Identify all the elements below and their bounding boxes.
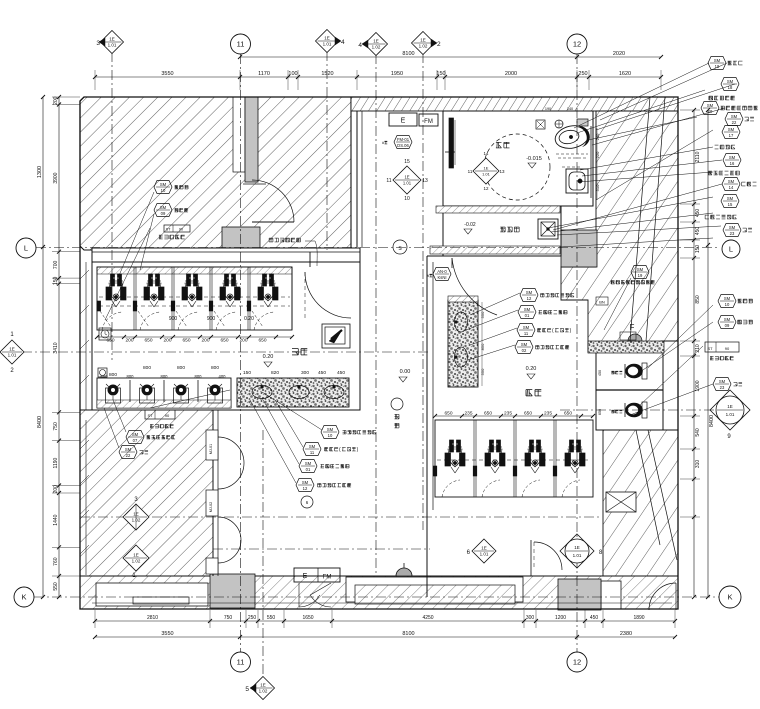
svg-text:1E: 1E <box>109 37 115 42</box>
bench lower-left <box>96 583 208 606</box>
FM box top <box>419 114 438 126</box>
svg-text:250: 250 <box>578 71 587 77</box>
svg-text:150: 150 <box>243 370 251 376</box>
column at grid 12 / L <box>561 230 597 267</box>
womens room name <box>526 366 542 396</box>
hatch region right shaft band <box>561 111 678 352</box>
mens room name <box>263 349 308 367</box>
svg-text:550: 550 <box>480 368 485 375</box>
svg-text:11: 11 <box>310 450 315 455</box>
svg-text:700: 700 <box>53 261 59 270</box>
grid line K horizontal <box>34 596 720 598</box>
callout urinal <box>126 431 175 444</box>
lobby cabinets <box>206 430 218 574</box>
svg-text:4: 4 <box>358 42 362 49</box>
svg-text:800: 800 <box>127 374 135 379</box>
svg-text:1200: 1200 <box>555 615 566 621</box>
svg-text:-0.02: -0.02 <box>464 222 476 228</box>
svg-text:1E: 1E <box>9 347 15 352</box>
svg-text:650: 650 <box>182 338 190 344</box>
column at grid 11 top <box>233 97 258 182</box>
cleaning room name <box>464 222 519 234</box>
svg-text:01: 01 <box>306 467 311 472</box>
mens entry closet <box>322 324 350 348</box>
svg-text:1650: 1650 <box>302 615 313 621</box>
warning sign label <box>269 238 317 266</box>
svg-text:800: 800 <box>143 365 151 371</box>
svg-text:1.02: 1.02 <box>372 45 381 50</box>
accessible basin <box>566 169 588 193</box>
svg-text:01: 01 <box>525 313 530 318</box>
mens wash counter <box>237 378 349 407</box>
urinal U3 <box>174 384 189 403</box>
column at grid 11 / L <box>222 227 260 267</box>
svg-text:5: 5 <box>245 686 249 693</box>
svg-text:15: 15 <box>404 159 410 165</box>
grid line 1 horizontal <box>22 351 430 353</box>
svg-text:F: F <box>630 323 635 332</box>
svg-text:200: 200 <box>163 338 171 344</box>
svg-text:0.20: 0.20 <box>526 366 537 372</box>
svg-text:09: 09 <box>725 323 730 328</box>
womens right stall walls <box>596 352 663 430</box>
grid bubble 3 top <box>96 31 123 54</box>
svg-text:11: 11 <box>386 178 391 184</box>
svg-text:SM: SM <box>125 447 132 452</box>
svg-text:190: 190 <box>545 107 551 111</box>
svg-text:11: 11 <box>237 658 245 667</box>
E FM box bottom <box>294 568 340 582</box>
svg-text:1190: 1190 <box>53 457 59 468</box>
womens wash counter <box>448 296 478 387</box>
svg-text:L: L <box>729 245 733 254</box>
svg-text:MJ-02: MJ-02 <box>209 502 213 513</box>
mop sink <box>538 219 558 239</box>
svg-text:SM: SM <box>160 182 167 187</box>
accessible inner dims <box>595 128 600 200</box>
svg-text:SM: SM <box>727 196 734 201</box>
right edge callouts <box>701 57 757 329</box>
womens stall dims <box>433 411 595 419</box>
svg-text:10: 10 <box>328 433 333 438</box>
svg-text:2020: 2020 <box>613 51 625 57</box>
womens right stalls <box>596 370 663 415</box>
accessible WC <box>553 119 591 151</box>
svg-text:90: 90 <box>725 346 730 351</box>
svg-text:SM: SM <box>728 179 735 184</box>
svg-text:10: 10 <box>725 302 730 307</box>
dim top row1 <box>93 71 663 79</box>
svg-text:550: 550 <box>480 311 485 318</box>
urinal U1 <box>106 384 121 403</box>
grid bubble 1 left <box>0 332 24 374</box>
svg-text:550: 550 <box>267 615 276 621</box>
grid line 2 vertical <box>422 53 424 530</box>
lobby corridor doors <box>213 410 244 576</box>
walkway centerline v <box>426 256 428 597</box>
squat toilet M2 <box>144 274 164 307</box>
svg-text:ST: ST <box>707 346 713 351</box>
svg-text:11: 11 <box>237 40 245 49</box>
svg-text:150: 150 <box>436 71 445 77</box>
svg-text:1.01: 1.01 <box>726 412 735 417</box>
mens stall dashed lines <box>99 297 290 306</box>
grid bubble 4 top <box>358 33 387 56</box>
mens stall dim row <box>95 335 294 344</box>
grid bubble K left <box>14 587 34 607</box>
squat toilet W3 <box>525 440 545 473</box>
dim bottom row1 <box>93 615 677 623</box>
svg-text:1E: 1E <box>420 38 426 43</box>
dim left extension lines <box>52 97 80 576</box>
grid bubble 11 bottom <box>231 652 251 672</box>
svg-text:200: 200 <box>125 338 133 344</box>
svg-text:850: 850 <box>480 343 485 350</box>
grid line 4a vertical <box>326 51 328 250</box>
column at grid 11 bottom <box>210 574 255 608</box>
svg-text:900: 900 <box>169 316 178 322</box>
svg-text:1.01: 1.01 <box>8 353 17 358</box>
grid line 12 vertical <box>576 54 578 652</box>
cleaning room walls <box>443 206 561 256</box>
bottom wall inner line <box>92 602 672 604</box>
grid bubble 3 lowerleft <box>123 497 149 530</box>
callout mens stone <box>159 225 190 239</box>
squat toilet M3 <box>182 274 202 307</box>
svg-text:19: 19 <box>638 273 643 278</box>
svg-text:12: 12 <box>527 296 532 301</box>
svg-text:820: 820 <box>271 370 279 376</box>
dim right outer <box>706 108 715 599</box>
svg-text:2110: 2110 <box>695 151 701 162</box>
svg-text:1.02: 1.02 <box>419 44 428 49</box>
svg-text:23: 23 <box>730 231 735 236</box>
svg-text:1.01: 1.01 <box>573 553 582 558</box>
svg-text:SM: SM <box>729 225 736 230</box>
svg-text:1.02: 1.02 <box>132 559 141 564</box>
svg-text:BN: BN <box>599 300 605 305</box>
svg-text:540: 540 <box>695 428 701 437</box>
urinal row <box>97 378 231 408</box>
floor drain mens2 <box>99 328 111 340</box>
squat toilet M1 <box>106 274 126 307</box>
svg-text:16: 16 <box>730 161 735 166</box>
svg-text:235: 235 <box>504 411 512 417</box>
F dryer label <box>620 323 642 341</box>
corridor label <box>391 398 403 428</box>
dim top row2 <box>238 51 663 59</box>
svg-text:15: 15 <box>728 202 733 207</box>
cleaning room threshold band bottom <box>430 246 560 254</box>
svg-text:4250: 4250 <box>422 615 433 621</box>
svg-text:650: 650 <box>484 411 492 417</box>
svg-text:750: 750 <box>224 615 233 621</box>
squat toilet W4 <box>565 440 585 473</box>
svg-text:ST: ST <box>166 228 172 232</box>
svg-text:23: 23 <box>720 385 725 390</box>
hatch region bottom band <box>80 576 678 609</box>
accessible room walls <box>443 111 593 206</box>
svg-text:8100: 8100 <box>402 51 414 57</box>
svg-text:3410: 3410 <box>53 342 59 353</box>
bench lower-right spans <box>601 581 621 609</box>
svg-text:650: 650 <box>144 338 152 344</box>
svg-text:K: K <box>727 593 732 602</box>
svg-text:900: 900 <box>207 316 216 322</box>
svg-text:450: 450 <box>337 370 345 376</box>
right stone callout <box>705 342 739 360</box>
squat toilet M4 <box>220 274 240 307</box>
hand dryer dome <box>396 563 412 576</box>
access panel box bottom-right <box>606 492 636 512</box>
svg-text:SM: SM <box>724 317 731 322</box>
mens stall tile band <box>97 267 292 274</box>
svg-text:E: E <box>303 573 308 580</box>
svg-text:1620: 1620 <box>619 71 631 77</box>
svg-text:650: 650 <box>564 411 572 417</box>
svg-text:1E: 1E <box>404 175 409 180</box>
womens entry callout <box>427 268 451 281</box>
accessible grab bars <box>445 126 591 198</box>
svg-text:1.01: 1.01 <box>480 552 489 557</box>
dim right inner <box>692 108 701 599</box>
svg-text:235: 235 <box>544 411 552 417</box>
svg-text:3550: 3550 <box>161 631 173 637</box>
svg-text:1.02: 1.02 <box>259 689 268 694</box>
svg-text:800: 800 <box>177 365 185 371</box>
bench lower-middle <box>346 577 523 604</box>
hatch region bottom-right <box>603 430 678 597</box>
vestibule walls <box>357 111 362 247</box>
svg-text:SM: SM <box>160 205 167 210</box>
mens room walls <box>92 248 360 410</box>
svg-text:550: 550 <box>53 582 59 591</box>
grid bubble 8 mid <box>560 534 603 568</box>
dim top extension lines <box>95 70 661 90</box>
svg-text:1.01: 1.01 <box>403 181 412 186</box>
accessible turning circle <box>484 134 550 200</box>
grid line 5 vertical <box>262 430 264 678</box>
dim bottom extension lines <box>95 610 675 628</box>
svg-text:450: 450 <box>318 370 326 376</box>
urinal U4 <box>208 384 223 403</box>
svg-text:0.20: 0.20 <box>263 354 274 360</box>
svg-text:650: 650 <box>258 338 266 344</box>
right leader lines <box>548 63 735 415</box>
svg-text:300: 300 <box>301 370 309 376</box>
svg-text:1E: 1E <box>484 166 489 171</box>
svg-text:SM: SM <box>521 342 528 347</box>
svg-text:12: 12 <box>483 186 489 191</box>
grid bubble L right <box>722 240 740 258</box>
svg-text:-0.015: -0.015 <box>526 156 542 162</box>
svg-text:K: K <box>21 593 26 602</box>
svg-text:MJ-01: MJ-01 <box>209 444 213 455</box>
hatch region top wall strip <box>351 97 678 111</box>
grid line 3 vertical <box>111 52 113 360</box>
svg-text:KsNI: KsNI <box>437 275 446 280</box>
svg-text:10: 10 <box>404 196 410 202</box>
svg-text:07: 07 <box>133 438 138 443</box>
sitting WC WR2 <box>611 402 647 418</box>
svg-text:1170: 1170 <box>258 71 270 77</box>
grid bubble L left <box>16 238 36 258</box>
svg-text:13: 13 <box>499 169 505 174</box>
svg-text:0.00: 0.00 <box>400 369 411 375</box>
urinal bottom tile band <box>97 400 231 408</box>
womens WC stall row <box>435 420 593 497</box>
lobby centerline h1 <box>80 516 600 518</box>
svg-text:850: 850 <box>695 295 701 304</box>
grid bubble 1 lowerleft <box>123 545 149 579</box>
womens hex callouts <box>515 289 574 354</box>
accessible room name <box>496 142 542 168</box>
svg-text:200: 200 <box>201 338 209 344</box>
svg-text:90: 90 <box>179 228 183 232</box>
lobby centerline h2 <box>213 548 430 550</box>
grid bubble 6 mid <box>467 539 496 563</box>
grid bubble 5 bottom <box>245 677 274 700</box>
hatch region upper-left hall <box>80 97 351 250</box>
svg-text:12: 12 <box>573 658 581 667</box>
svg-text:400: 400 <box>219 374 227 379</box>
svg-text:450: 450 <box>695 209 701 218</box>
svg-text:2000: 2000 <box>505 71 517 77</box>
svg-text:650: 650 <box>220 338 228 344</box>
mens entry door <box>292 252 351 330</box>
grid bubble 9 right <box>710 390 750 440</box>
svg-text:SM: SM <box>727 79 734 84</box>
womens stall door posts <box>433 466 557 476</box>
grid line 4 vertical <box>375 54 377 575</box>
svg-text:17: 17 <box>729 133 734 138</box>
mens stall door posts <box>97 301 251 311</box>
svg-text:SM: SM <box>302 480 309 485</box>
hatch region lower-left <box>80 410 213 576</box>
callout mens toilet <box>154 204 188 217</box>
grid bubble 12 bottom <box>567 652 587 672</box>
mens leader lines <box>105 192 154 320</box>
svg-text:1E: 1E <box>133 553 139 558</box>
vestibule diamond callout <box>386 159 428 202</box>
svg-text:1890: 1890 <box>633 615 644 621</box>
grid bubble 4a top <box>316 30 346 53</box>
womens top speckle counter <box>588 341 664 353</box>
svg-text:1300: 1300 <box>37 166 43 178</box>
svg-text:SM: SM <box>132 432 139 437</box>
svg-text:SM: SM <box>724 296 731 301</box>
svg-text:AN-0: AN-0 <box>437 269 447 274</box>
svg-text:450: 450 <box>695 227 701 236</box>
lobby hex callouts <box>296 426 376 509</box>
svg-text:09: 09 <box>161 211 166 216</box>
right stall callout <box>596 266 655 331</box>
svg-text:4: 4 <box>341 39 345 46</box>
svg-text:1.01: 1.01 <box>482 172 491 177</box>
svg-text:12: 12 <box>573 40 581 49</box>
svg-text:760: 760 <box>53 557 59 566</box>
svg-text:1E: 1E <box>574 545 580 550</box>
svg-text:450: 450 <box>598 370 602 376</box>
svg-text:SM: SM <box>728 127 735 132</box>
sitting WC WR1 <box>611 363 647 379</box>
svg-text:1E: 1E <box>727 404 733 409</box>
hall door above mens room <box>243 180 294 222</box>
dim left inner <box>53 95 61 599</box>
svg-text:SM: SM <box>309 444 316 449</box>
floor drain mens <box>98 368 107 377</box>
womens room walls <box>427 256 561 597</box>
svg-text:3: 3 <box>96 40 100 47</box>
callout urinal drain <box>119 446 148 459</box>
lobby leader lines <box>250 392 322 483</box>
svg-text:1440: 1440 <box>53 514 59 525</box>
left wall cavity ticks <box>80 262 89 575</box>
E box top <box>389 113 417 126</box>
cleaning room threshold band top <box>436 206 560 213</box>
svg-text:100: 100 <box>288 71 297 77</box>
svg-text:FM: FM <box>424 119 433 125</box>
svg-text:SM: SM <box>526 290 533 295</box>
urinal leader lines <box>104 390 230 448</box>
vestibule drain circle <box>393 240 407 254</box>
womens leader lines <box>466 293 520 360</box>
svg-text:SM: SM <box>729 155 736 160</box>
svg-text:2380: 2380 <box>620 631 632 637</box>
svg-text:3550: 3550 <box>161 71 173 77</box>
womens entry door <box>531 540 562 576</box>
level 0.00 <box>399 369 410 382</box>
bottom right door <box>649 583 676 610</box>
svg-text:8400: 8400 <box>37 416 43 428</box>
svg-text:DS.06: DS.06 <box>397 143 409 148</box>
svg-text:E: E <box>401 118 406 125</box>
svg-text:SM: SM <box>731 114 738 119</box>
svg-text:300: 300 <box>526 615 535 621</box>
svg-text:0.20: 0.20 <box>244 316 254 322</box>
squat toilet W1 <box>445 440 465 473</box>
svg-text:8100: 8100 <box>402 631 414 637</box>
squat toilet M5 <box>258 274 278 307</box>
svg-text:800: 800 <box>109 372 117 378</box>
callout urinal stone <box>145 410 175 428</box>
outer wall boundary <box>80 97 678 609</box>
mens stall doors <box>100 311 274 330</box>
right drain callout <box>713 378 742 391</box>
svg-text:3900: 3900 <box>53 172 59 183</box>
dim left outer <box>37 95 45 599</box>
womens counter dims <box>480 302 485 386</box>
svg-text:1E: 1E <box>324 36 330 41</box>
grid line L horizontal <box>36 247 720 249</box>
svg-text:150: 150 <box>695 245 701 254</box>
accessible callout diamond <box>468 151 505 191</box>
column at grid 12 bottom <box>558 579 601 610</box>
svg-text:1520: 1520 <box>321 71 333 77</box>
svg-text:SM: SM <box>637 267 644 272</box>
svg-text:14: 14 <box>483 151 489 156</box>
squat toilet W2 <box>485 440 505 473</box>
svg-text:1E: 1E <box>260 683 266 688</box>
svg-text:1950: 1950 <box>391 71 403 77</box>
svg-text:10: 10 <box>161 188 166 193</box>
svg-text:2: 2 <box>437 41 441 48</box>
svg-text:FM: FM <box>323 575 332 581</box>
svg-text:800: 800 <box>211 365 219 371</box>
svg-text:02: 02 <box>522 348 527 353</box>
callout mens paper holder <box>154 181 188 194</box>
womens stall doors <box>437 460 591 497</box>
